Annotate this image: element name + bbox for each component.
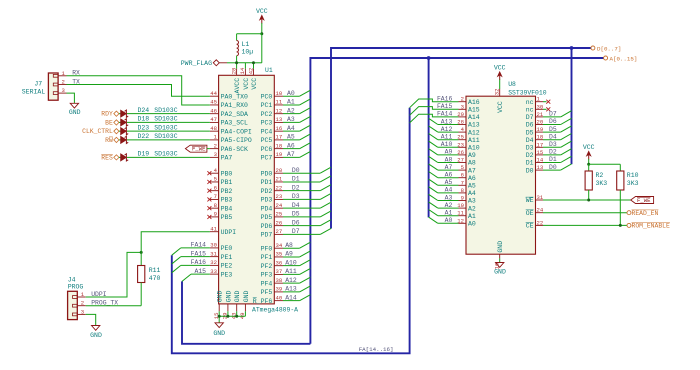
svg-text:ROM_ENABLE: ROM_ENABLE <box>632 223 671 230</box>
svg-text:D19: D19 <box>138 151 150 158</box>
junction at U1 ground rail 3 <box>235 315 238 318</box>
svg-text:D3: D3 <box>292 193 300 200</box>
svg-text:6: 6 <box>214 184 217 191</box>
wire D19 to U1 <box>127 156 210 158</box>
svg-text:15: 15 <box>537 149 544 156</box>
wire VCC to R10 <box>589 163 621 165</box>
svg-text:R11: R11 <box>149 267 161 274</box>
U1 pin 23 PD3 <box>274 198 283 200</box>
svg-text:18: 18 <box>537 134 544 141</box>
svg-text:9: 9 <box>461 195 464 202</box>
svg-text:PF1: PF1 <box>261 254 273 261</box>
wire A3 to U8 <box>438 200 459 202</box>
memory U8 body <box>466 96 536 254</box>
junction at U1 ground rail 2 <box>226 315 229 318</box>
U8 pin 18 D4 <box>536 139 544 141</box>
svg-text:A4: A4 <box>468 190 476 197</box>
svg-text:31: 31 <box>210 250 217 257</box>
U8 pin 6 A6 <box>459 177 467 179</box>
svg-text:A12: A12 <box>468 129 480 136</box>
svg-text:2: 2 <box>461 96 464 103</box>
svg-text:8: 8 <box>214 202 217 209</box>
U1 pin 28 AVCC <box>236 69 238 76</box>
power VCC top <box>261 16 263 23</box>
diode D18 SD103C <box>121 119 127 126</box>
svg-text:PB0: PB0 <box>221 170 233 177</box>
U8 pin 27 A8 <box>459 162 467 164</box>
svg-text:RES: RES <box>101 154 113 161</box>
wire UDPI junction to U1 pin41 <box>141 232 210 253</box>
wire A4 from PC4 <box>283 130 300 132</box>
wire OE to READ_EN <box>543 212 627 214</box>
svg-text:A14: A14 <box>285 294 297 301</box>
no-connect U8 pin 1 <box>543 101 547 103</box>
U1 pin 34 PF0 <box>274 247 283 249</box>
U1 pin 13 PC3 <box>274 121 283 123</box>
hier label READ_EN <box>627 211 631 215</box>
svg-text:AVCC: AVCC <box>234 78 241 94</box>
global label F_WE right <box>631 197 654 204</box>
svg-text:PA0_TX0: PA0_TX0 <box>221 93 248 100</box>
U1 pin 43 GND <box>236 304 238 311</box>
wire D18 to U1 <box>127 121 210 123</box>
J4 pin 3 <box>77 313 85 315</box>
svg-text:22: 22 <box>537 219 544 226</box>
wire D3 from U8 <box>543 146 561 148</box>
svg-text:RW: RW <box>105 137 113 144</box>
svg-text:D[0..7]: D[0..7] <box>597 45 621 52</box>
svg-text:3: 3 <box>461 103 464 110</box>
svg-text:PF4: PF4 <box>261 280 273 287</box>
U8 pin 16 GND <box>499 254 501 258</box>
svg-text:3K3: 3K3 <box>596 180 608 187</box>
svg-text:18: 18 <box>276 142 283 149</box>
wire J4 pin3 to ground <box>86 314 96 325</box>
bus D[0..7] horizontal <box>331 48 592 229</box>
svg-text:GND: GND <box>217 290 224 302</box>
svg-text:A[0..15]: A[0..15] <box>610 55 638 62</box>
svg-text:3: 3 <box>214 151 217 158</box>
wire A5 from PC5 <box>283 139 300 141</box>
svg-text:PA7: PA7 <box>221 155 233 162</box>
U1 pin 9 PB5 no-connect <box>210 216 219 218</box>
ground J7 <box>70 103 78 108</box>
wire power rail over U1 <box>237 62 254 64</box>
wire WE to F_WE <box>543 199 631 201</box>
svg-text:PC1: PC1 <box>261 102 273 109</box>
svg-text:26: 26 <box>276 219 283 226</box>
diode D19 SD103C <box>121 154 127 161</box>
svg-text:PF0: PF0 <box>261 245 273 252</box>
svg-text:PC7: PC7 <box>261 155 273 162</box>
bus A vertical right <box>428 58 430 217</box>
svg-text:PD2: PD2 <box>261 188 273 195</box>
inductor L1 <box>237 41 239 56</box>
U1 pin 3 PA7 <box>210 156 219 158</box>
svg-text:D0: D0 <box>292 167 300 174</box>
svg-text:VCC: VCC <box>251 78 258 90</box>
wire D6 from U8 <box>543 124 561 126</box>
U8 pin 31 WE <box>536 199 544 201</box>
connector J7 body <box>48 73 58 100</box>
svg-text:11: 11 <box>276 99 283 106</box>
svg-text:PC4: PC4 <box>261 128 273 135</box>
junction R2 WE <box>587 199 590 202</box>
wire D5 from PD5 <box>283 216 320 218</box>
U1 pin 6 PB2 no-connect <box>210 190 219 192</box>
svg-text:470: 470 <box>149 275 161 282</box>
svg-text:U1: U1 <box>265 67 273 74</box>
wire A7 to U8 <box>438 169 459 171</box>
connector J4 body <box>68 291 78 319</box>
svg-text:7: 7 <box>461 179 464 186</box>
svg-text:GND: GND <box>225 290 232 302</box>
U8 pin 17 D3 <box>536 146 544 148</box>
wire VCC right branch down to pin42 <box>261 34 263 63</box>
U8 pin 15 D2 <box>536 154 544 156</box>
wire UDPI J4 to junction <box>86 252 142 297</box>
svg-text:SD103C: SD103C <box>154 124 178 131</box>
svg-text:nc: nc <box>526 99 534 106</box>
U1 pin 1 PA5-CIPO <box>210 139 219 141</box>
svg-text:A13: A13 <box>468 122 480 129</box>
U1 pin 29 GND <box>227 304 229 311</box>
svg-text:24: 24 <box>276 202 283 209</box>
svg-text:45: 45 <box>210 99 217 106</box>
svg-text:PA3_SCL: PA3_SCL <box>221 120 248 127</box>
svg-text:13: 13 <box>276 116 283 123</box>
svg-text:A0: A0 <box>468 221 476 228</box>
svg-text:D23: D23 <box>138 124 150 131</box>
svg-text:A7: A7 <box>287 151 295 158</box>
svg-text:D4: D4 <box>526 137 534 144</box>
svg-text:D2: D2 <box>292 184 300 191</box>
svg-text:PWR_FLAG: PWR_FLAG <box>181 60 212 67</box>
svg-text:A0: A0 <box>287 90 295 97</box>
U1 pin 27 PD7 <box>274 233 283 235</box>
wire A10 to U8 <box>438 146 459 148</box>
svg-text:A6: A6 <box>468 175 476 182</box>
svg-text:SD103C: SD103C <box>154 107 178 114</box>
power VCC U8 <box>499 73 501 80</box>
svg-text:GND: GND <box>243 290 250 302</box>
U1 pin 41 UDPI <box>210 231 219 233</box>
U8 pin 19 D5 <box>536 131 544 133</box>
svg-text:3: 3 <box>62 87 65 94</box>
wire D1 from U8 <box>543 162 561 164</box>
svg-text:PF3: PF3 <box>261 272 273 279</box>
svg-text:16: 16 <box>276 125 283 132</box>
svg-text:PA4-COPI: PA4-COPI <box>221 128 252 135</box>
wire A7 from PC7 <box>283 156 300 158</box>
svg-text:U8: U8 <box>508 81 516 88</box>
svg-text:41: 41 <box>210 226 217 233</box>
J7 pin 2 <box>58 84 66 86</box>
wire A9 to U8 <box>438 154 459 156</box>
svg-text:PC5: PC5 <box>261 137 273 144</box>
svg-text:GND: GND <box>69 109 81 116</box>
wire A12 to U8 <box>438 131 459 133</box>
wire A2 to U8 <box>438 207 459 209</box>
U1 pin 36 PF2 <box>274 265 283 267</box>
junction A bus <box>427 56 431 60</box>
U1 pin 20 PD0 <box>274 172 283 174</box>
svg-text:9: 9 <box>214 211 217 218</box>
svg-text:D2: D2 <box>526 152 534 159</box>
svg-text:PF5: PF5 <box>261 289 273 296</box>
wire VCC to L1 top <box>237 33 262 35</box>
svg-text:PB5: PB5 <box>221 214 233 221</box>
wire D0 from PD0 <box>283 172 320 174</box>
svg-text:VCC: VCC <box>497 101 504 113</box>
svg-text:A2: A2 <box>468 205 476 212</box>
svg-text:R_PF6: R_PF6 <box>253 298 273 305</box>
svg-text:PA1_RX0: PA1_RX0 <box>221 102 248 109</box>
svg-text:SERIAL: SERIAL <box>22 89 46 96</box>
svg-text:PA2_SDA: PA2_SDA <box>221 111 248 118</box>
wire CLK_CTRL to D23 <box>119 130 121 132</box>
J7 pin 3 <box>58 92 66 94</box>
U8 pin 29 A14 <box>459 116 467 118</box>
global label F_WE left <box>185 145 207 152</box>
wire D2 from PD2 <box>283 190 320 192</box>
svg-text:A3: A3 <box>468 198 476 205</box>
U8 pin 13 D0 <box>536 169 544 171</box>
svg-text:3K3: 3K3 <box>627 180 639 187</box>
svg-text:5: 5 <box>214 176 217 183</box>
U1 pin 16 PC4 <box>274 130 283 132</box>
hier label A[0..15] <box>604 56 608 60</box>
wire D5 from U8 <box>543 131 561 133</box>
U1 pin 32 PE2 <box>210 264 219 266</box>
svg-text:19: 19 <box>276 151 283 158</box>
svg-text:D5: D5 <box>526 129 534 136</box>
svg-text:FA16: FA16 <box>191 259 207 266</box>
svg-text:A10: A10 <box>468 145 480 152</box>
U8 pin 11 A1 <box>459 215 467 217</box>
svg-text:D5: D5 <box>292 211 300 218</box>
U1 pin 22 PD2 <box>274 190 283 192</box>
svg-text:VCC: VCC <box>243 78 250 90</box>
svg-text:PC2: PC2 <box>261 111 273 118</box>
svg-text:A11: A11 <box>285 268 297 275</box>
svg-text:22: 22 <box>276 184 283 191</box>
svg-text:FA14: FA14 <box>191 242 207 249</box>
U8 pin 10 A2 <box>459 207 467 209</box>
svg-text:D4: D4 <box>292 202 300 209</box>
U1 pin 40 R_PF6 <box>274 300 283 302</box>
wire A8 from PF0 <box>283 247 300 249</box>
wire D22 to U1 <box>127 139 210 141</box>
svg-text:PF2: PF2 <box>261 263 273 270</box>
svg-text:46: 46 <box>210 107 217 114</box>
svg-text:FA15: FA15 <box>191 250 207 257</box>
wire D6 from PD6 <box>283 225 320 227</box>
svg-text:20: 20 <box>276 167 283 174</box>
wire VCC to U8 <box>499 80 501 90</box>
wire D23 to U1 <box>127 130 210 132</box>
U8 pin 14 D1 <box>536 162 544 164</box>
U1 pin 21 PD1 <box>274 181 283 183</box>
svg-text:PE0: PE0 <box>221 245 233 252</box>
svg-text:D18: D18 <box>138 116 150 123</box>
U1 pin 17 PC5 <box>274 139 283 141</box>
U8 pin 5 A7 <box>459 169 467 171</box>
svg-text:FA[14..16]: FA[14..16] <box>359 346 394 353</box>
wire FA15 from U1 <box>181 256 210 258</box>
wire A2 from PC2 <box>283 113 300 115</box>
junction VCC node <box>260 32 263 35</box>
svg-text:A5: A5 <box>468 183 476 190</box>
svg-text:L1: L1 <box>242 41 250 48</box>
wire D7 from PD7 <box>283 233 320 235</box>
resistor R10 3K3 <box>619 164 621 171</box>
svg-text:CE: CE <box>526 223 534 230</box>
U8 pin 2 A16 <box>459 101 467 103</box>
svg-text:A8: A8 <box>285 242 293 249</box>
wire VCC to R2 node <box>588 159 590 164</box>
U8 pin 28 A13 <box>459 124 467 126</box>
svg-text:5: 5 <box>461 164 464 171</box>
wire PROG_TX J4 to R11 <box>86 305 142 307</box>
svg-text:A16: A16 <box>468 99 480 106</box>
svg-text:3: 3 <box>81 308 84 315</box>
wire FA16 to U8 <box>410 99 459 108</box>
svg-text:PC6: PC6 <box>261 146 273 153</box>
U1 pin 11 PC1 <box>274 104 283 106</box>
J4 pin 1 <box>77 296 85 298</box>
svg-text:SD103C: SD103C <box>154 133 178 140</box>
svg-text:7: 7 <box>214 193 217 200</box>
wire A9 from PF1 <box>283 256 300 258</box>
svg-text:A10: A10 <box>285 259 297 266</box>
wire A1 to U8 <box>438 215 459 217</box>
svg-text:27: 27 <box>276 228 283 235</box>
wire RW to D22 <box>119 139 121 141</box>
svg-text:BE: BE <box>105 119 113 126</box>
wire RDY to D24 <box>119 113 121 115</box>
svg-text:D3: D3 <box>526 145 534 152</box>
U1 pin 37 PF3 <box>274 273 283 275</box>
U8 pin 23 A10 <box>459 146 467 148</box>
svg-text:PE1: PE1 <box>221 254 233 261</box>
wire A10 from PF2 <box>283 265 300 267</box>
svg-text:8: 8 <box>461 187 464 194</box>
wire VCC stem down <box>261 23 263 34</box>
U1 pin 45 PA1_RX0 <box>210 104 219 106</box>
wire D3 from PD3 <box>283 198 320 200</box>
mcu U1 body <box>219 75 275 304</box>
ground J4 <box>92 326 100 331</box>
svg-text:32: 32 <box>210 259 217 266</box>
wire A4 to U8 <box>438 192 459 194</box>
svg-text:A15: A15 <box>194 268 206 275</box>
svg-text:PD3: PD3 <box>261 197 273 204</box>
svg-text:PB3: PB3 <box>221 197 233 204</box>
svg-text:PD7: PD7 <box>261 232 273 239</box>
wire BE to D18 <box>119 121 121 123</box>
wire A5 to U8 <box>438 184 459 186</box>
svg-text:10: 10 <box>276 90 283 97</box>
svg-text:PD1: PD1 <box>261 179 273 186</box>
power VCC pullups <box>588 152 590 159</box>
svg-text:33: 33 <box>210 268 217 275</box>
svg-text:D6: D6 <box>526 122 534 129</box>
svg-text:21: 21 <box>537 111 544 118</box>
svg-text:VCC: VCC <box>494 65 506 72</box>
wire A1 from PC1 <box>283 104 300 106</box>
svg-text:VCC: VCC <box>256 8 268 15</box>
no-connect U8 pin 30 <box>543 108 547 110</box>
U8 pin 30 nc <box>536 108 544 110</box>
svg-text:SD103C: SD103C <box>154 116 178 123</box>
svg-text:PD5: PD5 <box>261 214 273 221</box>
bus A[0..15] horizontal <box>310 58 604 344</box>
svg-text:35: 35 <box>276 251 283 258</box>
U1 pin 35 PF1 <box>274 256 283 258</box>
svg-text:RDY: RDY <box>101 111 113 118</box>
svg-text:A13: A13 <box>285 286 297 293</box>
svg-text:GND: GND <box>213 330 225 337</box>
svg-text:PE3: PE3 <box>221 271 233 278</box>
wire CE to ROM_ENABLE <box>543 224 627 226</box>
wire D7 from U8 <box>543 116 561 118</box>
svg-text:23: 23 <box>276 193 283 200</box>
wire TX J7 to PA0 <box>67 85 210 97</box>
svg-text:SST39VF010: SST39VF010 <box>508 89 547 96</box>
U1 pin 8 PB4 no-connect <box>210 207 219 209</box>
U1 pin 33 PE3 <box>210 273 219 275</box>
U8 pin 32 VCC <box>499 89 501 96</box>
svg-text:30: 30 <box>537 103 544 110</box>
U1 pin 19 PC7 <box>274 156 283 158</box>
svg-text:2: 2 <box>214 142 217 149</box>
svg-text:VCC: VCC <box>583 144 595 151</box>
U8 pin 7 A5 <box>459 184 467 186</box>
svg-text:47: 47 <box>210 116 217 123</box>
svg-text:A8: A8 <box>468 160 476 167</box>
bus FA[14..16] <box>172 108 410 354</box>
U1 pin 25 PD5 <box>274 216 283 218</box>
svg-text:14: 14 <box>537 157 544 164</box>
J7 pin 1 <box>58 75 66 77</box>
U1 pin 39 PF5 <box>274 291 283 293</box>
svg-text:A5: A5 <box>287 134 295 141</box>
svg-text:12: 12 <box>276 107 283 114</box>
svg-text:nc: nc <box>526 107 534 114</box>
svg-text:R2: R2 <box>596 172 604 179</box>
wire A11 to U8 <box>438 139 459 141</box>
svg-text:D7: D7 <box>526 114 534 121</box>
U8 pin 8 A4 <box>459 192 467 194</box>
hier label ROM_ENABLE <box>627 223 631 227</box>
wire FA14 to U8 <box>410 114 459 123</box>
svg-text:38: 38 <box>276 277 283 284</box>
svg-text:PD4: PD4 <box>261 205 273 212</box>
U1 pin 12 PC2 <box>274 113 283 115</box>
svg-text:17: 17 <box>276 134 283 141</box>
svg-text:J7: J7 <box>34 80 42 87</box>
svg-text:D24: D24 <box>138 107 150 114</box>
svg-text:44: 44 <box>210 90 217 97</box>
svg-text:20: 20 <box>537 119 544 126</box>
svg-text:34: 34 <box>276 242 283 249</box>
svg-text:PB4: PB4 <box>221 205 233 212</box>
svg-text:CLK_CTRL: CLK_CTRL <box>82 128 113 135</box>
wire U1 ground rail <box>218 311 220 316</box>
svg-text:25: 25 <box>276 211 283 218</box>
svg-text:A4: A4 <box>287 125 295 132</box>
